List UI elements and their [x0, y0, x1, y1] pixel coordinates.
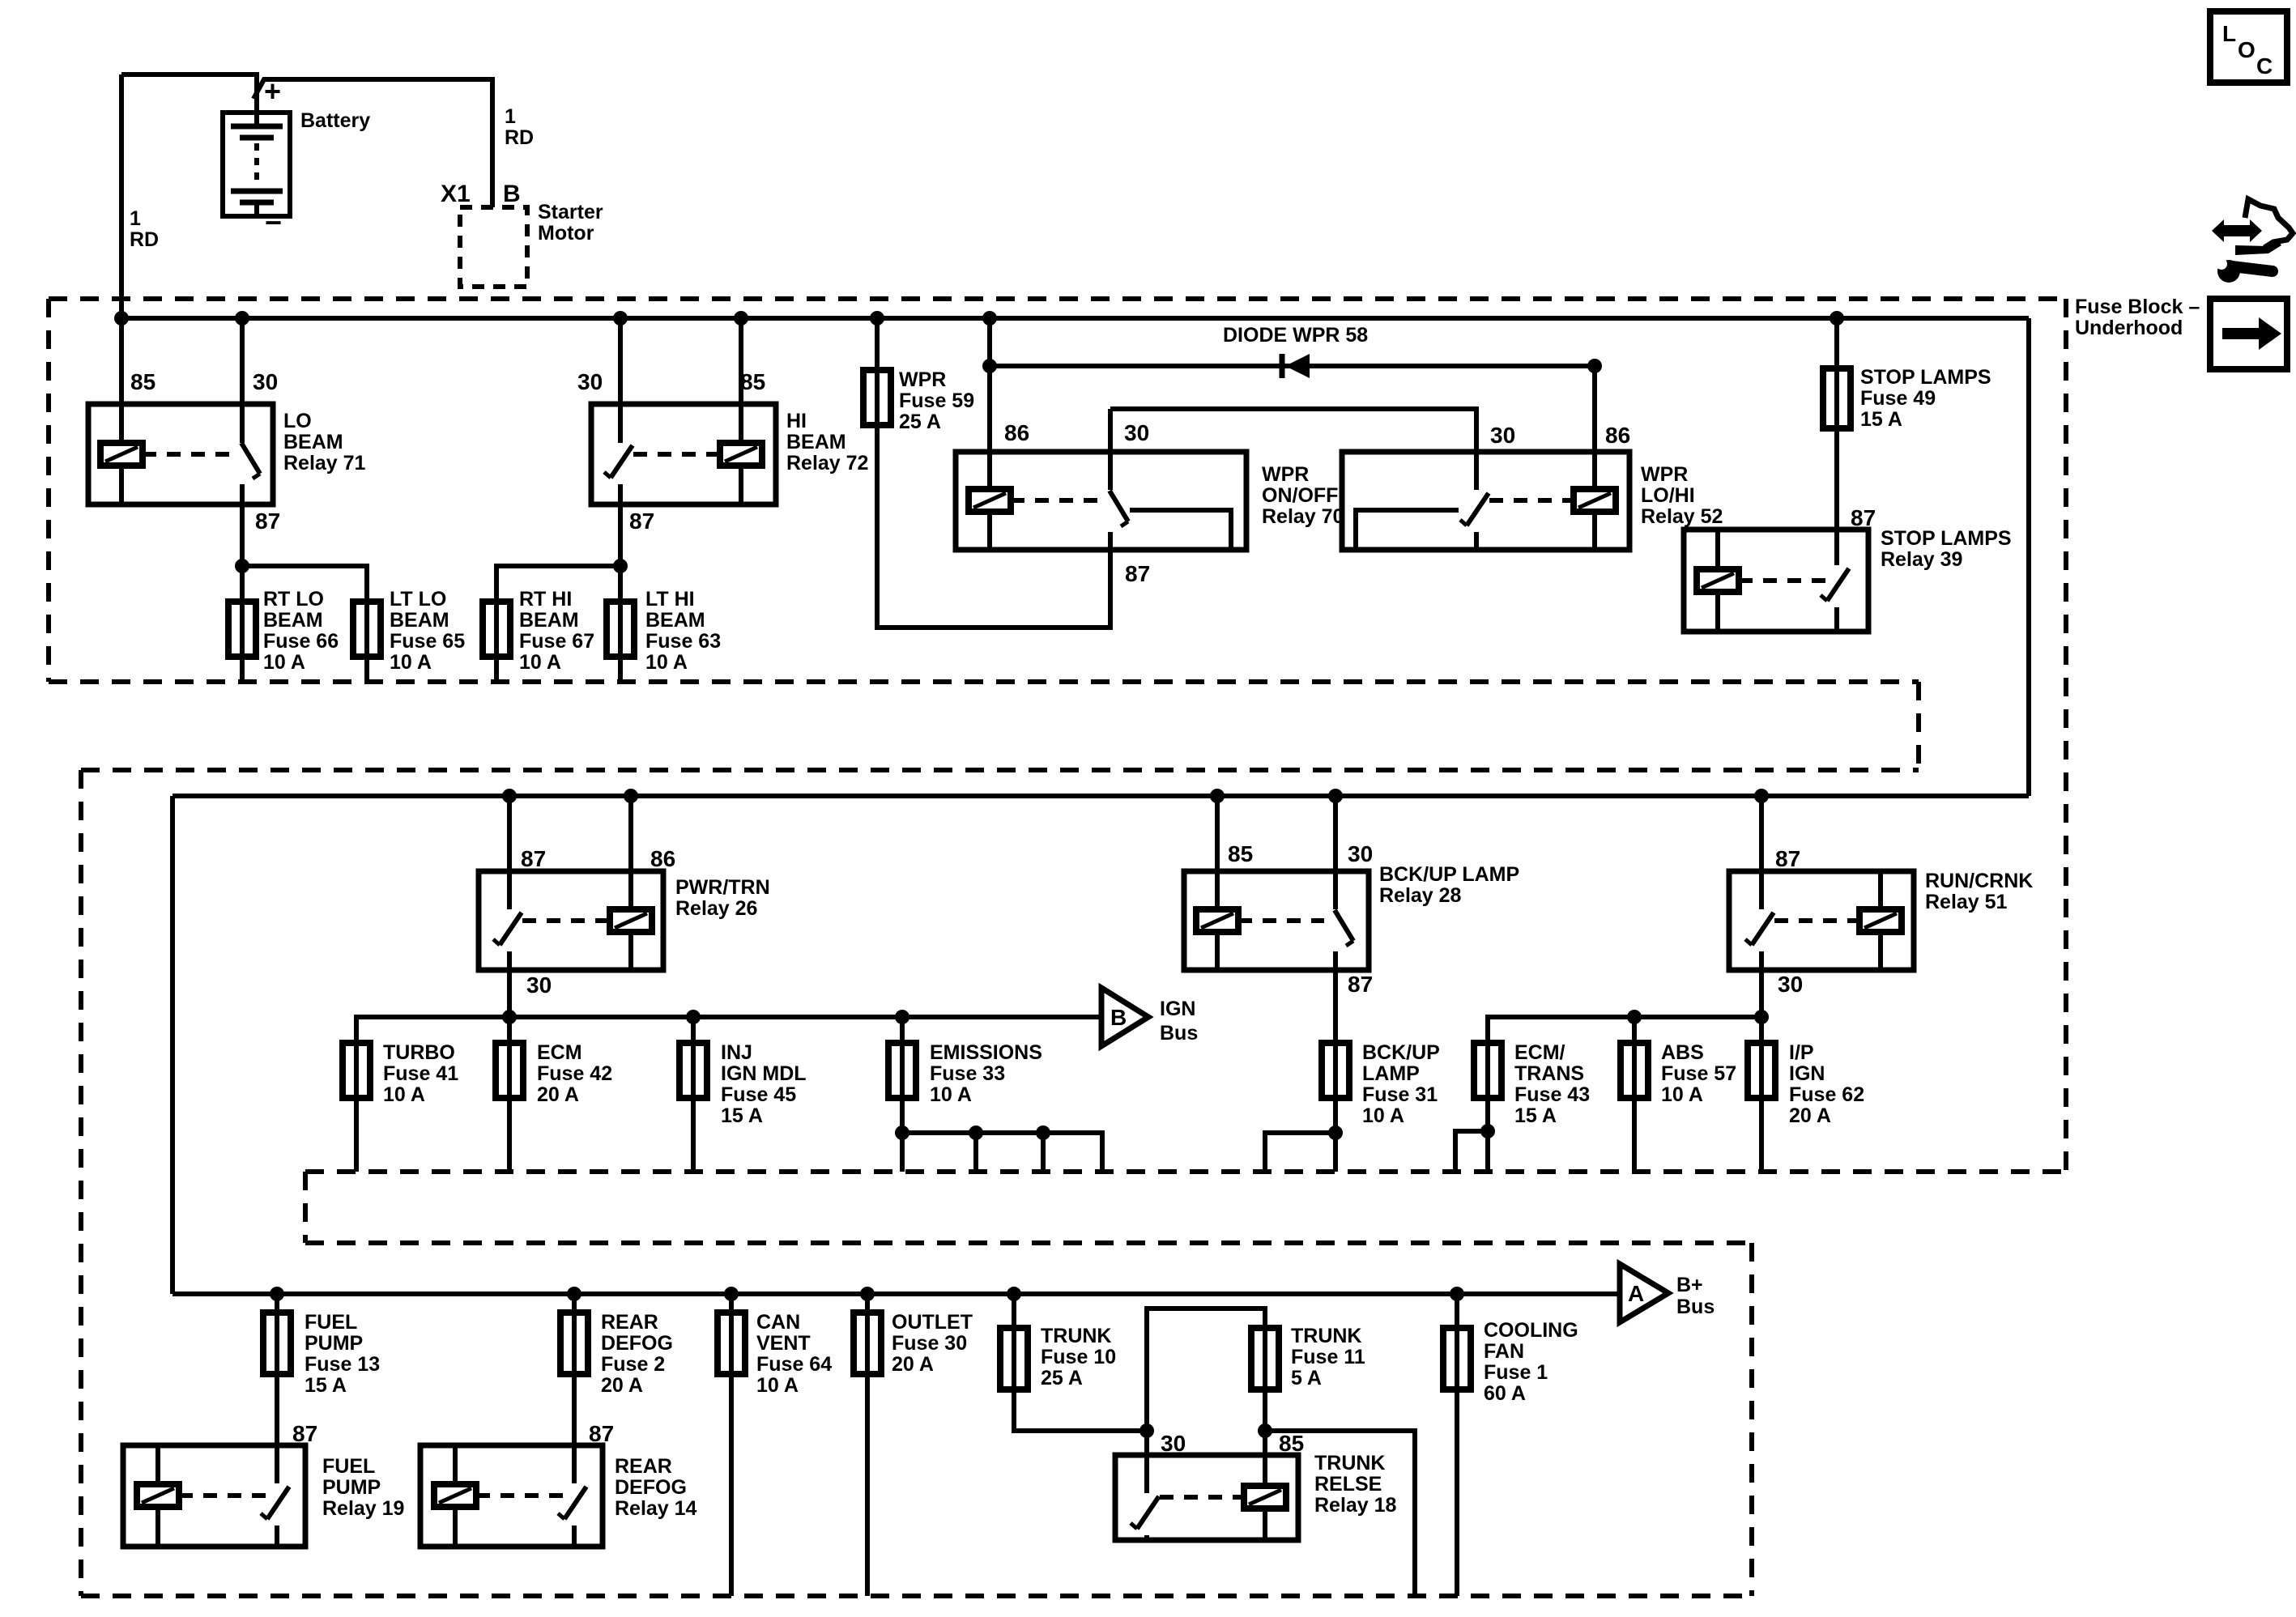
junction diode line left — [982, 359, 997, 373]
wire fuse 66 to boundary — [364, 657, 369, 682]
battery B1 — [223, 113, 290, 216]
svg-text:1: 1 — [130, 207, 141, 230]
label RT HI BEAM Fuse 67 10 A — [519, 588, 594, 674]
fuse F10 TRUNK — [1000, 1328, 1028, 1389]
wire fuel pump feed — [275, 1294, 279, 1445]
fuse F63 LT HI BEAM — [607, 602, 634, 657]
wire relay 51 pin 30 down — [1759, 970, 1764, 1043]
svg-text:10 A: 10 A — [390, 651, 432, 674]
svg-text:Fuse 42: Fuse 42 — [537, 1062, 612, 1085]
svg-text:BEAM: BEAM — [786, 431, 846, 453]
wire relay18 pin30 riser loop — [1147, 1308, 1265, 1455]
svg-text:HI: HI — [786, 410, 807, 432]
svg-text:RD: RD — [130, 228, 159, 251]
svg-text:15 A: 15 A — [721, 1104, 763, 1127]
svg-text:87: 87 — [521, 846, 546, 871]
junction B+ / fuse30 — [860, 1287, 875, 1301]
wire fuse33 down to comb — [900, 1098, 905, 1172]
svg-text:Underhood: Underhood — [2075, 317, 2183, 339]
label REAR DEFOG Fuse 2 20 A — [601, 1311, 673, 1397]
svg-text:Bus: Bus — [1160, 1022, 1198, 1045]
junction bus2 / relay26 86 — [624, 789, 638, 803]
ign rail left — [356, 1017, 1101, 1043]
svg-text:1: 1 — [505, 105, 516, 128]
svg-text:Fuse 67: Fuse 67 — [519, 630, 594, 653]
svg-text:A: A — [1628, 1281, 1644, 1306]
comb1 stub c — [1041, 1133, 1046, 1172]
wire relay 51 pin 87 riser — [1759, 796, 1764, 909]
wire branch to LT LO fuse — [242, 566, 367, 602]
svg-text:30: 30 — [1161, 1431, 1186, 1456]
svg-text:ABS: ABS — [1661, 1041, 1704, 1064]
battery minus terminal label — [265, 206, 282, 239]
svg-text:FUEL: FUEL — [305, 1311, 357, 1334]
junction bus1 / relay71 85 — [114, 311, 129, 326]
label BCK/UP LAMP Fuse 31 10 A — [1362, 1041, 1440, 1127]
svg-text:BEAM: BEAM — [645, 609, 705, 632]
wire relay 28 pin 87 down — [1333, 970, 1338, 1172]
wire relay 72 pin 87 down — [618, 504, 623, 682]
label pin 86 relay 52 — [1605, 423, 1630, 448]
junction diode line right — [1587, 359, 1602, 373]
wire battery positive to bus (1 RD left) — [119, 74, 124, 318]
wire relay70-relay52 pin30 link — [1110, 409, 1476, 490]
label pin 87 relay 39 — [1851, 505, 1876, 530]
svg-text:30: 30 — [1778, 972, 1803, 997]
next-page arrow box — [2210, 299, 2287, 369]
svg-text:Fuse 11: Fuse 11 — [1291, 1346, 1365, 1368]
svg-text:Relay 28: Relay 28 — [1379, 884, 1462, 907]
B+ bus wire — [173, 1291, 1618, 1296]
svg-text:Fuse 65: Fuse 65 — [390, 630, 465, 653]
svg-text:ECM: ECM — [537, 1041, 582, 1064]
svg-text:BCK/UP LAMP: BCK/UP LAMP — [1379, 863, 1519, 886]
label INJ IGN MDL Fuse 45 15 A — [721, 1041, 807, 1127]
junction rail / relay51-fuse62 — [1754, 1010, 1769, 1024]
svg-text:87: 87 — [1125, 561, 1150, 586]
svg-text:Relay 70: Relay 70 — [1262, 505, 1344, 528]
svg-text:Fuse 43: Fuse 43 — [1514, 1083, 1590, 1106]
wire relay 26 pin 87 riser — [507, 796, 512, 909]
label RUN/CRNK Relay 51 — [1925, 870, 2033, 913]
wire fuse33 stub — [900, 1017, 905, 1043]
label pin 87 relay 70 — [1125, 561, 1150, 586]
junction bus1 / relay72 85 — [734, 311, 748, 326]
svg-text:87: 87 — [629, 509, 654, 534]
svg-text:87: 87 — [1775, 846, 1800, 871]
label pin 30 relay 70 — [1124, 420, 1149, 445]
label pin 85 relay 71 — [130, 369, 155, 394]
label pin 87 relay 51 — [1775, 846, 1800, 871]
svg-text:EMISSIONS: EMISSIONS — [930, 1041, 1042, 1064]
svg-text:5 A: 5 A — [1291, 1367, 1322, 1389]
wire battery top — [121, 72, 257, 126]
relay K39 STOP LAMPS — [1684, 530, 1868, 632]
label BCK/UP LAMP Relay 28 — [1379, 863, 1519, 907]
label TRUNK Fuse 11 5 A — [1291, 1325, 1365, 1389]
svg-text:STOP LAMPS: STOP LAMPS — [1881, 527, 2012, 550]
relay K26 PWR/TRN — [479, 871, 663, 970]
label OUTLET Fuse 30 20 A — [892, 1311, 973, 1376]
fuse F66 RT LO BEAM — [228, 602, 256, 657]
bus wire row 1 (battery feed) — [121, 316, 2029, 321]
svg-text:Fuse 57: Fuse 57 — [1661, 1062, 1736, 1085]
label ECM/TRANS Fuse 43 15 A — [1514, 1041, 1590, 1127]
comb wire under fuse 31 — [1265, 1133, 1335, 1172]
svg-text:TRANS: TRANS — [1514, 1062, 1584, 1085]
svg-text:Relay 26: Relay 26 — [675, 897, 757, 920]
wire fuse45 stub — [691, 1017, 696, 1043]
wire fuse57 stub — [1632, 1017, 1637, 1043]
junction bus1 / relay70 86 — [982, 311, 997, 326]
svg-text:20 A: 20 A — [537, 1083, 579, 1106]
label ABS Fuse 57 10 A — [1661, 1041, 1736, 1106]
wire fuse43 down to comb — [1485, 1098, 1490, 1172]
wire fuse 49 riser — [1834, 318, 1839, 368]
wire fuse11 out — [1265, 1431, 1415, 1596]
svg-text:15 A: 15 A — [305, 1374, 347, 1397]
svg-text:87: 87 — [1851, 505, 1876, 530]
svg-text:85: 85 — [1279, 1431, 1304, 1456]
label HI BEAM Relay 72 — [786, 410, 868, 474]
junction fuse11 / relay18 85 — [1258, 1423, 1272, 1438]
label CAN VENT Fuse 64 10 A — [756, 1311, 832, 1397]
service icon (wrench) — [2216, 258, 2273, 283]
svg-text:Fuse 66: Fuse 66 — [263, 630, 339, 653]
fuse F2 REAR DEFOG — [560, 1313, 588, 1374]
svg-text:30: 30 — [577, 369, 603, 394]
svg-text:87: 87 — [292, 1421, 317, 1446]
junction B+ / fuse13 — [270, 1287, 284, 1301]
fuse block boundary right edge — [2064, 299, 2068, 1172]
connector B triangle (IGN Bus) — [1101, 988, 1148, 1046]
svg-text:X1: X1 — [441, 181, 471, 207]
label B pin — [503, 181, 521, 207]
fuse block boundary box 1 bottom edge — [49, 679, 1919, 684]
label EMISSIONS Fuse 33 10 A — [930, 1041, 1042, 1106]
svg-text:Fuse 63: Fuse 63 — [645, 630, 721, 653]
fuse block underhood boundary box 1 top edge — [49, 296, 2066, 301]
comb wire under fuse 43 — [1455, 1131, 1488, 1172]
svg-text:DEFOG: DEFOG — [601, 1332, 673, 1355]
svg-text:DEFOG: DEFOG — [615, 1476, 687, 1499]
svg-text:ON/OFF: ON/OFF — [1262, 484, 1338, 507]
label FUEL PUMP Fuse 13 15 A — [305, 1311, 380, 1397]
junction bus2 / relay28 85 — [1210, 789, 1225, 803]
svg-text:INJ: INJ — [721, 1041, 752, 1064]
svg-text:Fuse 49: Fuse 49 — [1860, 387, 1936, 410]
fuse F31 BCK/UP LAMP — [1322, 1043, 1349, 1098]
svg-text:10 A: 10 A — [645, 651, 688, 674]
svg-text:15 A: 15 A — [1860, 408, 1902, 431]
svg-text:15 A: 15 A — [1514, 1104, 1557, 1127]
fuse F43 ECM/TRANS — [1474, 1043, 1502, 1098]
wire relay 71 pin 87 down — [240, 504, 245, 682]
fuse F64 CAN VENT — [718, 1313, 745, 1374]
svg-text:30: 30 — [1348, 841, 1373, 866]
wire fuse41 down — [354, 1098, 359, 1172]
svg-text:87: 87 — [255, 509, 280, 534]
junction rail / fuse45 — [686, 1010, 701, 1024]
svg-text:IGN: IGN — [1789, 1062, 1825, 1085]
label WPR ON/OFF Relay 70 — [1262, 463, 1344, 528]
junction relay71 87 split — [235, 559, 249, 573]
battery plus terminal label — [264, 74, 281, 108]
junction B+ / fuse2 — [567, 1287, 581, 1301]
label pin 30 relay 26 — [526, 972, 552, 998]
label I/P IGN Fuse 62 20 A — [1789, 1041, 1864, 1127]
svg-text:30: 30 — [1490, 423, 1515, 448]
junction bus1 / relay71 30 — [235, 311, 249, 326]
svg-text:CAN: CAN — [756, 1311, 800, 1334]
fuse block boundary box 3 bottom edge — [81, 1594, 1752, 1598]
wire relay 72 pin 30 riser — [618, 318, 623, 443]
svg-text:TRUNK: TRUNK — [1041, 1325, 1112, 1347]
svg-text:Fuse 41: Fuse 41 — [383, 1062, 458, 1085]
svg-text:FUEL: FUEL — [322, 1455, 375, 1478]
label pin 30 relay 18 — [1161, 1431, 1186, 1456]
svg-text:BEAM: BEAM — [283, 431, 343, 453]
label pin 87 relay 28 — [1348, 972, 1373, 997]
svg-text:−: − — [265, 206, 282, 239]
fuse F42 ECM — [496, 1043, 523, 1098]
fuse block boundary box 2 top edge — [81, 768, 1919, 772]
label pin 87 relay 71 — [255, 509, 280, 534]
fuse F41 TURBO — [343, 1043, 370, 1098]
label ECM Fuse 42 20 A — [537, 1041, 612, 1106]
svg-text:LO/HI: LO/HI — [1641, 484, 1695, 507]
label pin 87 relay 19 — [292, 1421, 317, 1446]
label B+ Bus — [1676, 1274, 1715, 1318]
fuse F30 OUTLET — [854, 1313, 881, 1374]
svg-text:10 A: 10 A — [930, 1083, 972, 1106]
svg-text:LT HI: LT HI — [645, 588, 695, 611]
svg-text:85: 85 — [1228, 841, 1253, 866]
svg-text:PUMP: PUMP — [322, 1476, 381, 1499]
starter motor M1 (dashed box) — [460, 207, 527, 287]
junction trunk loop / pin30 — [1139, 1423, 1154, 1438]
svg-text:Bus: Bus — [1676, 1296, 1715, 1318]
fuse block boundary left edge box2/box3 — [79, 770, 83, 1596]
wire outlet fuse 30 — [865, 1294, 870, 1596]
svg-text:86: 86 — [1004, 420, 1029, 445]
svg-text:LO: LO — [283, 410, 312, 432]
wire fuse 59 riser and 87 return — [877, 318, 1110, 628]
label Battery — [300, 109, 370, 132]
relay K51 RUN/CRNK — [1729, 871, 1914, 970]
svg-text:Fuse 45: Fuse 45 — [721, 1083, 796, 1106]
svg-text:RUN/CRNK: RUN/CRNK — [1925, 870, 2033, 892]
svg-text:20 A: 20 A — [892, 1353, 934, 1376]
svg-text:PWR/TRN: PWR/TRN — [675, 876, 770, 899]
svg-text:BCK/UP: BCK/UP — [1362, 1041, 1440, 1064]
svg-text:Relay 18: Relay 18 — [1314, 1494, 1397, 1517]
label pin 30 relay 72 — [577, 369, 603, 394]
label COOLING FAN Fuse 1 60 A — [1484, 1319, 1578, 1405]
junction bus2 / relay26 87 — [502, 789, 517, 803]
wire relay 28 pin 30 riser — [1333, 796, 1338, 909]
label TURBO Fuse 41 10 A — [383, 1041, 458, 1106]
svg-text:STOP LAMPS: STOP LAMPS — [1860, 366, 1991, 389]
fuse F57 ABS — [1621, 1043, 1648, 1098]
svg-text:30: 30 — [526, 972, 552, 998]
label 1 RD left wire — [130, 207, 159, 251]
wire branch to RT HI fuse — [496, 566, 620, 602]
svg-text:Relay 51: Relay 51 — [1925, 891, 2008, 913]
fuse F67 RT HI BEAM — [483, 602, 510, 657]
relay K72 HI BEAM — [591, 404, 776, 504]
service icon (panel outline) — [2235, 199, 2293, 255]
svg-text:B: B — [1110, 1005, 1127, 1030]
fuse F11 TRUNK — [1251, 1328, 1279, 1389]
label Fuse Block - Underhood — [2075, 296, 2200, 339]
wire cooling fan fuse 1 — [1455, 1294, 1459, 1596]
svg-text:Fuse 33: Fuse 33 — [930, 1062, 1005, 1085]
svg-text:C: C — [2256, 53, 2273, 79]
svg-text:LT LO: LT LO — [390, 588, 446, 611]
svg-text:10 A: 10 A — [1661, 1083, 1703, 1106]
junction bus1 / relay72 30 — [613, 311, 628, 326]
wire fuse 67 to boundary — [494, 657, 499, 682]
label pin 30 relay 52 — [1490, 423, 1515, 448]
relay K18 TRUNK RELSE — [1115, 1455, 1298, 1540]
diode line wire — [990, 364, 1595, 368]
junction B+ / fuse1 — [1450, 1287, 1464, 1301]
svg-text:RD: RD — [505, 126, 534, 149]
comb wire under emissions fuse — [902, 1133, 1102, 1172]
svg-text:Motor: Motor — [538, 222, 594, 245]
label pin 30 relay 51 — [1778, 972, 1803, 997]
label STOP LAMPS Fuse 49 15 A — [1860, 366, 1991, 431]
svg-text:85: 85 — [740, 369, 765, 394]
svg-text:Fuse 1: Fuse 1 — [1484, 1361, 1548, 1384]
svg-text:Relay 39: Relay 39 — [1881, 548, 1962, 571]
svg-text:Fuse 10: Fuse 10 — [1041, 1346, 1116, 1368]
svg-text:FAN: FAN — [1484, 1340, 1524, 1363]
fuse block boundary box 3 top edge — [305, 1240, 1752, 1245]
wire right corridor bus1 to bus2 — [2026, 318, 2031, 796]
svg-text:RT HI: RT HI — [519, 588, 572, 611]
svg-text:TRUNK: TRUNK — [1291, 1325, 1362, 1347]
svg-text:IGN: IGN — [1160, 998, 1195, 1020]
svg-text:Relay 71: Relay 71 — [283, 452, 366, 474]
label pin 87 relay 26 — [521, 846, 546, 871]
label Starter Motor — [538, 201, 603, 245]
label LT LO BEAM Fuse 65 10 A — [390, 588, 465, 674]
fuse F59 WPR — [863, 370, 891, 425]
label pin 86 relay 26 — [650, 846, 675, 871]
svg-text:REAR: REAR — [601, 1311, 658, 1334]
fuse block boundary box 3 right edge — [1749, 1243, 1754, 1596]
label pin 87 relay 72 — [629, 509, 654, 534]
svg-text:Relay 19: Relay 19 — [322, 1497, 404, 1520]
junction rail / relay26-fuse42 — [502, 1010, 517, 1024]
wire trunk fuse 10 chain — [1014, 1294, 1147, 1431]
wire relay18 pin85 riser — [1263, 1431, 1267, 1455]
label pin 85 relay 18 — [1279, 1431, 1304, 1456]
fuse F13 FUEL PUMP — [263, 1313, 291, 1374]
svg-text:Fuse 31: Fuse 31 — [1362, 1083, 1438, 1106]
svg-text:86: 86 — [1605, 423, 1630, 448]
label PWR/TRN Relay 26 — [675, 876, 770, 920]
svg-text:TRUNK: TRUNK — [1314, 1452, 1386, 1474]
svg-text:B: B — [503, 181, 521, 207]
svg-text:Fuse 2: Fuse 2 — [601, 1353, 665, 1376]
svg-text:20 A: 20 A — [601, 1374, 643, 1397]
svg-text:ECM/: ECM/ — [1514, 1041, 1565, 1064]
svg-text:60 A: 60 A — [1484, 1382, 1526, 1405]
svg-text:DIODE WPR 58: DIODE WPR 58 — [1223, 324, 1368, 347]
label X1 pin — [441, 181, 471, 207]
label RT LO BEAM Fuse 66 10 A — [263, 588, 339, 674]
fuse block boundary jog box2-box3 — [303, 1172, 308, 1243]
svg-text:10 A: 10 A — [383, 1083, 425, 1106]
junction rail / fuse57 — [1627, 1010, 1642, 1024]
svg-text:RT LO: RT LO — [263, 588, 324, 611]
wire relay 26 pin 86 riser — [628, 796, 633, 909]
connector A triangle (B+ Bus) — [1620, 1264, 1668, 1322]
svg-text:30: 30 — [253, 369, 278, 394]
svg-text:Starter: Starter — [538, 201, 603, 223]
svg-text:85: 85 — [130, 369, 155, 394]
svg-text:WPR: WPR — [1641, 463, 1688, 486]
wire relay 26 pin 30 down — [507, 970, 512, 1043]
relay K52 WPR LO/HI — [1342, 452, 1629, 550]
fuse block boundary box 2 bottom edge — [305, 1169, 2066, 1174]
svg-text:Fuse 13: Fuse 13 — [305, 1353, 380, 1376]
svg-text:IGN MDL: IGN MDL — [721, 1062, 807, 1085]
svg-text:LAMP: LAMP — [1362, 1062, 1420, 1085]
relay K70 WPR ON/OFF — [956, 452, 1246, 550]
junction comb3 — [1480, 1124, 1495, 1138]
junction comb1 a — [895, 1126, 909, 1140]
wire relay 70 pin 86 riser — [987, 318, 992, 491]
label pin 85 relay 72 — [740, 369, 765, 394]
svg-text:COOLING: COOLING — [1484, 1319, 1578, 1342]
wire fuse42 down — [507, 1098, 512, 1172]
junction comb2 — [1328, 1126, 1343, 1140]
svg-text:I/P: I/P — [1789, 1041, 1814, 1064]
fuse F49 STOP LAMPS — [1823, 368, 1851, 428]
wire relay 72 pin 85 riser — [739, 318, 743, 446]
svg-text:L: L — [2222, 21, 2236, 46]
wire fuse45 down — [691, 1098, 696, 1172]
svg-text:WPR: WPR — [1262, 463, 1309, 486]
svg-text:Fuse 62: Fuse 62 — [1789, 1083, 1864, 1106]
wire relay 70 pin 30 riser — [1108, 409, 1113, 490]
svg-text:Fuse Block –: Fuse Block – — [2075, 296, 2200, 318]
svg-text:87: 87 — [1348, 972, 1373, 997]
bus wire row 2 — [173, 794, 2029, 798]
service icon (double arrow) — [2212, 219, 2262, 242]
junction bus2 / relay51 87 — [1754, 789, 1769, 803]
svg-text:BEAM: BEAM — [263, 609, 323, 632]
junction B+ / fuse64 — [724, 1287, 739, 1301]
wire fuse 49 to relay 39 pin 87 — [1834, 423, 1839, 530]
ign rail right — [1488, 1017, 1761, 1043]
wire fuse62 down — [1759, 1098, 1764, 1172]
LOC reference box — [2210, 11, 2287, 83]
svg-text:Relay 14: Relay 14 — [615, 1497, 697, 1520]
junction relay72 87 split — [613, 559, 628, 573]
label FUEL PUMP Relay 19 — [322, 1455, 404, 1520]
svg-text:REAR: REAR — [615, 1455, 672, 1478]
svg-text:10 A: 10 A — [1362, 1104, 1404, 1127]
svg-text:BEAM: BEAM — [390, 609, 449, 632]
fuse F33 EMISSIONS — [888, 1043, 916, 1098]
wire battery to starter motor (1 RD right) — [253, 79, 492, 207]
comb1 stub b — [973, 1133, 978, 1172]
